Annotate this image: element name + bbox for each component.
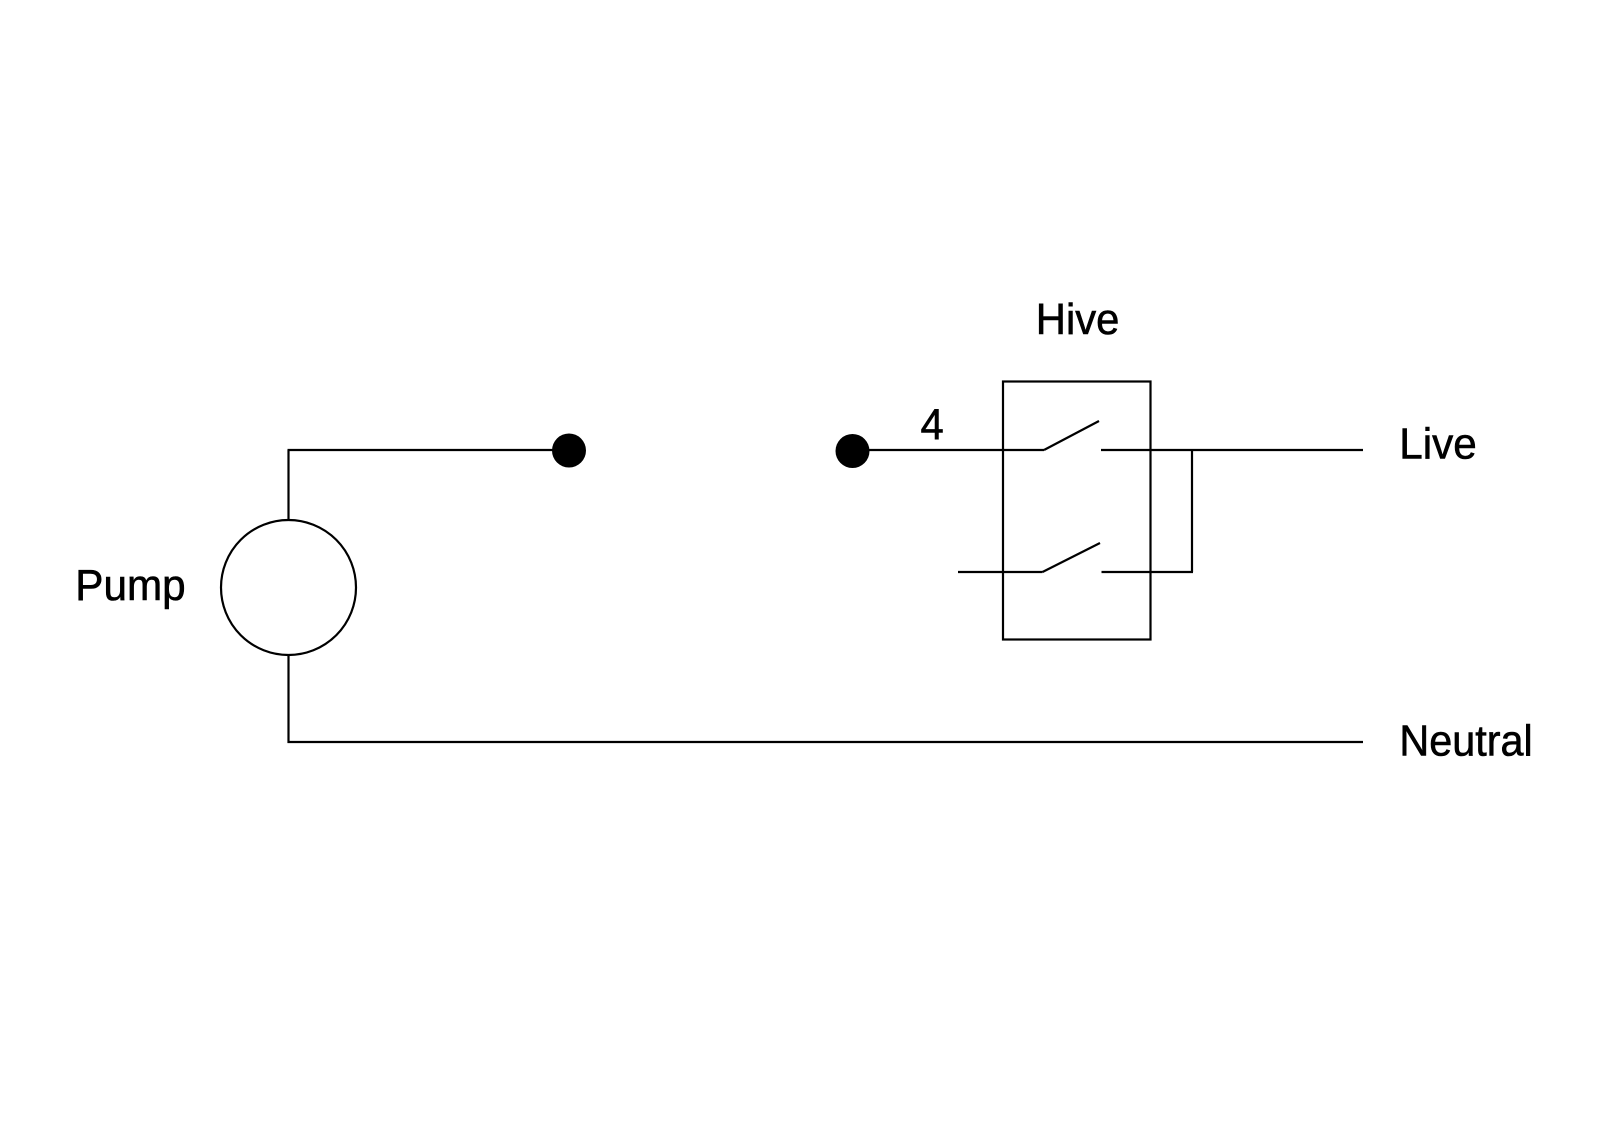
svg-text:4: 4 — [921, 401, 944, 450]
wire switch S1 output to Live — [1101, 449, 1363, 451]
svg-text:Pump: Pump — [75, 561, 185, 610]
wire loop vertical — [1191, 450, 1193, 572]
switch S1 blade — [1044, 421, 1099, 450]
wire neutral horizontal — [288, 741, 1364, 743]
wire pump top horizontal to node A — [288, 449, 570, 451]
pump M1 — [221, 520, 356, 655]
wire pump bottom vertical — [287, 655, 289, 743]
svg-text:Live: Live — [1399, 420, 1476, 469]
node B open terminal — [836, 434, 870, 468]
wire pump top vertical — [287, 450, 289, 520]
svg-text:Neutral: Neutral — [1399, 716, 1532, 765]
svg-text:Hive: Hive — [1036, 295, 1120, 344]
switch S2 blade — [1043, 543, 1101, 572]
Hive relay box U1 — [1003, 382, 1151, 640]
wire node B to switch S1 contact — [853, 449, 1045, 451]
wire switch S2 output — [1102, 571, 1194, 573]
switch S2 left stub — [958, 571, 1043, 573]
node A open terminal — [552, 434, 586, 468]
